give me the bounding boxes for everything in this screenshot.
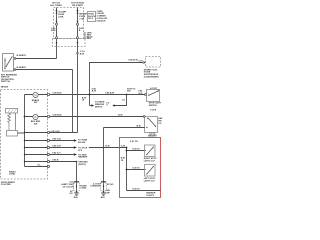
- svg-text:G-W 18: G-W 18: [132, 149, 140, 151]
- bottom lamp label: [146, 192, 156, 197]
- junction at hazard ground line: [103, 147, 105, 149]
- svg-text:SW: SW: [34, 124, 37, 126]
- svg-text:2-67 VR: 2-67 VR: [130, 141, 138, 143]
- svg-text:0.85 G-B: 0.85 G-B: [52, 139, 61, 141]
- wire to noise suppressor: [90, 63, 146, 106]
- wire battery feed (left fuse line): [56, 8, 58, 59]
- wire hazard switch to ground line: [104, 127, 145, 129]
- label at noise drop: [82, 97, 86, 101]
- svg-text:LIGHT 2-67: LIGHT 2-67: [144, 160, 156, 162]
- fuse F1 element: [56, 10, 58, 12]
- wire vertical feed to flasher w1: [72, 70, 74, 133]
- svg-text:SW: SW: [127, 91, 130, 93]
- small label left of arrow: [106, 103, 110, 107]
- right stop light lamp: [145, 145, 156, 157]
- bus label: [121, 158, 125, 162]
- svg-text:COND: COND: [9, 174, 16, 176]
- cluster bottom note: [1, 182, 16, 186]
- svg-text:LMP: LMP: [105, 192, 110, 194]
- svg-text:G-W 18: G-W 18: [132, 168, 140, 170]
- connector on key switch lower wire: [14, 69, 16, 71]
- instrument cluster (dashed): [1, 90, 48, 180]
- svg-text:SWITCH): SWITCH): [1, 81, 10, 83]
- svg-text:SWITCH: SWITCH: [149, 105, 158, 107]
- capacitor CN2 label right: [105, 183, 113, 194]
- cluster vertical bus: [24, 95, 26, 167]
- wire label near noise junction: [92, 88, 97, 92]
- svg-text:COND: COND: [80, 188, 87, 190]
- svg-text:0.85 G-W: 0.85 G-W: [51, 131, 60, 133]
- rear combination lamp assembly (red box): [120, 138, 161, 198]
- fuse F2 element: [77, 10, 79, 12]
- hazard branch down from lamp1 wire: [115, 95, 127, 106]
- capacitor CN2 (dashed): [100, 183, 106, 191]
- wire ignition feed (right fuse line): [77, 8, 79, 133]
- junction block note: [83, 32, 85, 40]
- svg-text:B-WHITE: B-WHITE: [17, 55, 27, 57]
- arrow right from noise line: [90, 105, 92, 107]
- flasher wire 4: [25, 154, 74, 156]
- svg-text:0.85 G-R: 0.85 G-R: [52, 146, 61, 148]
- wire w5 drop to ground: [76, 162, 78, 192]
- svg-text:B-W: B-W: [106, 145, 110, 147]
- svg-text:0.85 B: 0.85 B: [52, 160, 59, 162]
- wire unit to bus: [18, 132, 25, 134]
- svg-text:AT NO: AT NO: [107, 183, 114, 186]
- capacitor CN1 (dashed): [73, 183, 79, 191]
- node label HOT IN RUN: [71, 3, 84, 8]
- svg-text:0.85 B-W: 0.85 B-W: [105, 93, 114, 95]
- noise suppressor box: [146, 57, 161, 68]
- hazard switch side label: [158, 117, 163, 125]
- hazard switch terminals: [150, 133, 152, 135]
- flasher unit label: [9, 170, 16, 175]
- connector on lamp1 wire at cluster edge: [45, 94, 46, 95]
- flasher wire 1: [25, 132, 78, 134]
- lamp L2: [33, 114, 38, 119]
- hazard switch SW3: [145, 117, 158, 133]
- arrow wire 4: [74, 153, 77, 155]
- capacitor CN1 label right: [80, 185, 87, 189]
- wire to left stop light: [127, 169, 145, 171]
- flasher wire 5: [25, 161, 77, 163]
- wire lamp 2 feed: [25, 116, 145, 118]
- svg-text:0.85 B-W: 0.85 B-W: [53, 93, 62, 95]
- svg-text:LIGHTS: LIGHTS: [146, 195, 154, 197]
- lamp L2 label: [31, 121, 41, 125]
- lamp bus vertical: [126, 148, 128, 191]
- left stop light label: [144, 178, 156, 182]
- wire key switch lower output: [14, 69, 73, 71]
- svg-text:G-W 18: G-W 18: [132, 189, 140, 191]
- ground G1: [76, 191, 78, 193]
- connector on key switch upper wire: [14, 58, 16, 60]
- lamp L1 brake warning: [33, 92, 38, 97]
- connector C1 on left line: [56, 37, 58, 39]
- svg-text:G-W: G-W: [121, 146, 125, 148]
- svg-text:F-LPS: F-LPS: [150, 110, 157, 112]
- svg-text:METER: METER: [1, 87, 9, 89]
- legend text list: [97, 11, 108, 23]
- svg-text:OF COLOR: OF COLOR: [63, 186, 74, 188]
- fuse block legend box: [88, 12, 96, 22]
- svg-text:CONDENS: CONDENS: [90, 186, 101, 188]
- wire from battery fuse to key switch: [15, 58, 57, 60]
- flasher wire 3: [25, 147, 74, 149]
- wire to right stop light: [127, 150, 145, 152]
- wire lamp 1 feed: [25, 94, 147, 96]
- svg-text:G-W: G-W: [138, 93, 142, 95]
- hazard switch bottom label: [148, 134, 157, 139]
- svg-text:LTS: LTS: [78, 150, 82, 152]
- svg-text:0.85 B-W: 0.85 B-W: [53, 115, 62, 117]
- arrow left (continuation): [112, 104, 114, 106]
- junction at noise wire: [89, 94, 91, 96]
- right stop light label: [144, 158, 157, 162]
- fuse F2 value label: [79, 14, 87, 21]
- svg-text:ALL TIMES: ALL TIMES: [50, 4, 62, 7]
- connector C5 label: [80, 51, 86, 55]
- svg-text:B-WHITE: B-WHITE: [17, 67, 27, 69]
- junction lamp2: [24, 116, 26, 118]
- capacitor CN1 connector bar: [74, 181, 79, 183]
- svg-text:0.85 G-Y: 0.85 G-Y: [52, 153, 61, 155]
- svg-text:SW: SW: [34, 102, 37, 104]
- wire label 0.85 B-W left: [51, 28, 56, 32]
- connector C4 on right line: [77, 42, 79, 44]
- connector C2 on left line: [56, 42, 58, 44]
- svg-text:CLUSTER: CLUSTER: [1, 184, 11, 186]
- flasher wire 2: [25, 140, 74, 142]
- svg-text:4 BLK: 4 BLK: [85, 37, 91, 40]
- svg-text:NO.2: NO.2: [88, 18, 94, 20]
- svg-text:B-W: B-W: [92, 91, 96, 93]
- svg-text:LINK: LINK: [58, 17, 64, 19]
- key reminder switch SW1: [3, 54, 14, 72]
- node label HOT AT ALL TIMES: [50, 2, 62, 8]
- capacitor CN2 connector bar: [101, 181, 106, 183]
- junction block (dashed): [53, 39, 86, 47]
- regulator straight leg: [15, 113, 17, 131]
- capacitor CN2 label left: [90, 183, 101, 187]
- continuation note: [95, 101, 105, 109]
- connector C5 on right line: [77, 52, 79, 54]
- fuse F1 value label: [58, 11, 66, 19]
- left stop light lamp: [145, 165, 156, 177]
- junction at hazard branch: [126, 94, 128, 96]
- flasher unit small box: [7, 131, 18, 137]
- lamp L1 label: [32, 99, 40, 104]
- svg-text:B-W: B-W: [137, 125, 141, 127]
- connector on lamp2 wire at cluster edge: [45, 116, 46, 117]
- svg-text:7.5A: 7.5A: [79, 18, 84, 21]
- hazard ground vertical: [103, 128, 105, 192]
- regulator coil leg: [8, 113, 11, 131]
- ground G2: [103, 191, 105, 193]
- stop light switch SW2: [147, 90, 160, 102]
- svg-text:LIGHT 2-67: LIGHT 2-67: [144, 180, 156, 182]
- arrow wire 2: [74, 139, 77, 141]
- svg-text:B-W: B-W: [118, 115, 122, 117]
- svg-text:5 BLACK: 5 BLACK: [97, 19, 107, 22]
- wire bottom to marker: [127, 190, 161, 192]
- svg-text:SIG SW: SIG SW: [78, 142, 86, 144]
- wire label right line: [79, 28, 84, 32]
- fuse box (dashed): [54, 8, 84, 39]
- svg-text:MARKER: MARKER: [78, 156, 88, 159]
- key reminder switch label: [1, 75, 17, 84]
- capacitor CN1 label left: [61, 182, 74, 189]
- svg-text:(BODY): (BODY): [78, 164, 86, 166]
- svg-text:(CONDENSER): (CONDENSER): [144, 77, 159, 79]
- connector on noise wire: [143, 62, 145, 64]
- svg-text:OR START: OR START: [72, 4, 84, 7]
- svg-text:DEFOG: DEFOG: [95, 106, 103, 108]
- connector C3 on right line: [77, 37, 79, 39]
- voltage regulator (hatched): [6, 109, 18, 114]
- flasher wire 6: [25, 166, 48, 168]
- wire label before stop switch: [127, 88, 136, 92]
- svg-text:2-67VR: 2-67VR: [150, 88, 158, 90]
- svg-text:0.85 B-W: 0.85 B-W: [128, 59, 138, 61]
- svg-text:GD: GD: [69, 193, 73, 195]
- noise suppressor label: [144, 68, 159, 78]
